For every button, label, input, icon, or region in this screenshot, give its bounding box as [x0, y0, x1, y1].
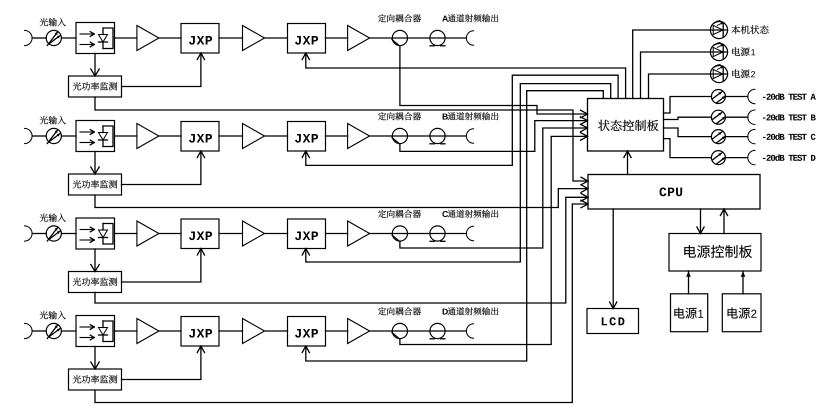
optical input connector (channel C) [25, 226, 33, 241]
wire [725, 96, 747, 98]
wire [32, 37, 46, 39]
amplifier A41 (channel D) [137, 319, 159, 344]
label -20dB TEST D [763, 154, 816, 161]
JXP module 1 (channel C) [181, 219, 219, 249]
RF output connector (channel D) [466, 324, 473, 338]
optical receiver with photodiode (channel D) [76, 316, 115, 347]
label A通道射频输出 [442, 14, 498, 22]
wire [115, 135, 137, 137]
directional coupler (channel C) [392, 226, 408, 241]
attenuator pad (channel C) [430, 226, 445, 241]
wire: status board to TEST B attenuator [664, 117, 712, 119]
wire [61, 233, 76, 235]
wire [61, 135, 76, 137]
wire [159, 233, 181, 235]
attenuator pad (channel B) [430, 128, 445, 143]
variable optical attenuator (channel C) [46, 226, 61, 241]
label 定向耦合器 (channel C) [378, 210, 421, 218]
wire [326, 135, 348, 137]
LED power1 indicator [710, 42, 727, 60]
wire: status board to LED power2 [649, 74, 711, 99]
wire: status board to TEST A attenuator [664, 97, 712, 114]
JXP module 2 (channel A) [288, 24, 326, 54]
wire: JXP2 gain control from status board (channel A) [302, 53, 625, 99]
wire [219, 330, 243, 332]
JXP module 2 (channel B) [288, 122, 326, 152]
wire: monitor output to CPU (channel C) [95, 194, 588, 304]
wire [725, 157, 747, 159]
test attenuator (TEST A) [711, 90, 725, 104]
wire [326, 330, 348, 332]
variable optical attenuator (channel D) [46, 323, 61, 338]
wire [32, 330, 46, 332]
wire [61, 37, 76, 39]
amplifier A42 (channel D) [243, 319, 265, 344]
label D通道射频输出 [443, 307, 499, 315]
wire: coupler tap to status board (channel A) [400, 46, 588, 118]
LED machine status indicator [710, 20, 727, 38]
wire: power supply 1 to power control board [686, 271, 691, 294]
wire: CPU to LCD with arrow [610, 209, 617, 309]
label -20dB TEST B [763, 114, 816, 121]
wire [32, 233, 46, 235]
wire [326, 37, 348, 39]
TEST C output connector [748, 129, 755, 143]
wire [265, 135, 288, 137]
wire: monitor output to CPU (channel D) [95, 200, 588, 402]
wire: receiver to monitor with arrow [91, 54, 99, 77]
wire [159, 330, 181, 332]
wire through coupler and pad [370, 330, 467, 332]
wire: monitor output to JXP1 gain control [122, 53, 205, 87]
amplifier A32 (channel C) [243, 221, 265, 246]
wire: monitor output to JXP1 gain control [122, 346, 205, 380]
wire [265, 37, 288, 39]
label 定向耦合器 (channel D) [378, 307, 421, 315]
label 光输入 (channel C) [40, 214, 66, 222]
wire [61, 330, 76, 332]
amplifier A13 (channel A) [348, 26, 370, 51]
attenuator pad (channel D) [430, 323, 445, 338]
wire: CPU to status board with arrow [624, 151, 631, 175]
RF output connector (channel A) [466, 31, 473, 45]
wire through coupler and pad [370, 233, 467, 235]
label 电源1 [732, 47, 755, 56]
amplifier A11 (channel A) [137, 26, 159, 51]
directional coupler (channel D) [392, 323, 408, 338]
RF output connector (channel B) [466, 129, 473, 143]
wire [159, 37, 181, 39]
wire: status board to LED machine status [633, 30, 711, 99]
amplifier A23 (channel B) [348, 124, 370, 149]
wire [219, 135, 243, 137]
wire: JXP2 gain control from status board (channel B) [302, 75, 618, 165]
status control board 状态控制板 [588, 99, 664, 152]
label C通道射频输出 [442, 210, 498, 218]
wire [725, 116, 747, 118]
test attenuator (TEST D) [711, 151, 725, 165]
wire [115, 330, 137, 332]
JXP module 1 (channel D) [181, 317, 219, 347]
JXP module 2 (channel D) [288, 317, 326, 347]
wire: monitor output to JXP1 gain control [122, 151, 205, 185]
JXP module 1 (channel A) [181, 24, 219, 54]
wire [265, 233, 288, 235]
optical input connector (channel A) [25, 30, 33, 45]
TEST A output connector [748, 89, 755, 103]
optical input connector (channel D) [25, 323, 33, 338]
label 光输入 (channel B) [40, 116, 66, 124]
attenuator pad (channel A) [430, 30, 445, 45]
power supply 1 box 电源1 [671, 294, 708, 332]
wire: CPU to power control board [697, 209, 704, 234]
label 光输入 (channel A) [40, 18, 66, 26]
wire: power control board to CPU [720, 209, 727, 234]
optical receiver with photodiode (channel A) [76, 23, 115, 54]
wire [219, 233, 243, 235]
optical receiver with photodiode (channel B) [76, 121, 115, 152]
wire: power supply 2 to power control board [741, 271, 746, 294]
amplifier A43 (channel D) [348, 319, 370, 344]
power control board 电源控制板 [669, 234, 761, 272]
wire: coupler tap to status board (channel C) [400, 124, 588, 248]
wire: status board to TEST C attenuator [664, 128, 712, 137]
wire: receiver to monitor with arrow [91, 152, 99, 175]
wire [725, 136, 747, 138]
wire: monitor output to JXP1 gain control [122, 249, 205, 283]
variable optical attenuator (channel A) [46, 30, 61, 45]
wire [265, 330, 288, 332]
CPU board [588, 175, 760, 210]
amplifier A21 (channel B) [137, 124, 159, 149]
label 电源2 [732, 69, 755, 78]
label -20dB TEST A [763, 93, 816, 100]
wire [115, 37, 137, 39]
wire: monitor output to CPU (channel B) [95, 185, 588, 208]
wire: JXP2 gain control from status board (channel C) [302, 84, 611, 262]
amplifier A33 (channel C) [348, 221, 370, 246]
wire: coupler tap to status board (channel D) [400, 133, 588, 345]
variable optical attenuator (channel B) [46, 128, 61, 143]
optical power monitor box (channel B) [69, 174, 122, 195]
RF output connector (channel C) [466, 226, 473, 240]
wire through coupler and pad [370, 135, 467, 137]
wire: status board to LED power1 [641, 52, 711, 99]
wire [219, 37, 243, 39]
wire [326, 233, 348, 235]
label 光输入 (channel D) [40, 311, 66, 319]
label 定向耦合器 (channel B) [378, 112, 421, 120]
wire: receiver to monitor with arrow [91, 347, 99, 370]
LED power2 indicator [710, 64, 727, 82]
directional coupler (channel A) [392, 30, 408, 45]
optical input connector (channel B) [25, 128, 33, 143]
JXP module 2 (channel C) [288, 219, 326, 249]
wire: receiver to monitor with arrow [91, 249, 99, 272]
optical power monitor box (channel C) [69, 272, 122, 293]
directional coupler (channel B) [392, 128, 408, 143]
wire: JXP2 gain control from status board (channel D) [302, 91, 603, 361]
wire [159, 135, 181, 137]
optical power monitor box (channel A) [69, 76, 122, 97]
TEST B output connector [748, 110, 755, 124]
optical power monitor box (channel D) [69, 369, 122, 390]
amplifier A31 (channel C) [137, 221, 159, 246]
wire: status board to TEST D attenuator [664, 139, 712, 158]
JXP module 1 (channel B) [181, 122, 219, 152]
wire through coupler and pad [370, 37, 467, 39]
wire: monitor output to CPU (channel A) [95, 97, 588, 185]
optical receiver with photodiode (channel C) [76, 218, 115, 249]
label 本机状态 [731, 25, 768, 34]
test attenuator (TEST B) [711, 110, 725, 124]
amplifier A12 (channel A) [243, 26, 265, 51]
wire: coupler tap to status board (channel B) [400, 117, 588, 152]
test attenuator (TEST C) [711, 130, 725, 144]
label -20dB TEST C [763, 133, 816, 140]
amplifier A22 (channel B) [243, 124, 265, 149]
wire [115, 233, 137, 235]
wire [32, 135, 46, 137]
TEST D output connector [748, 150, 755, 164]
LCD display box [587, 309, 639, 334]
label B通道射频输出 [443, 112, 499, 120]
power supply 2 box 电源2 [722, 294, 761, 332]
label 定向耦合器 (channel A) [378, 14, 421, 22]
